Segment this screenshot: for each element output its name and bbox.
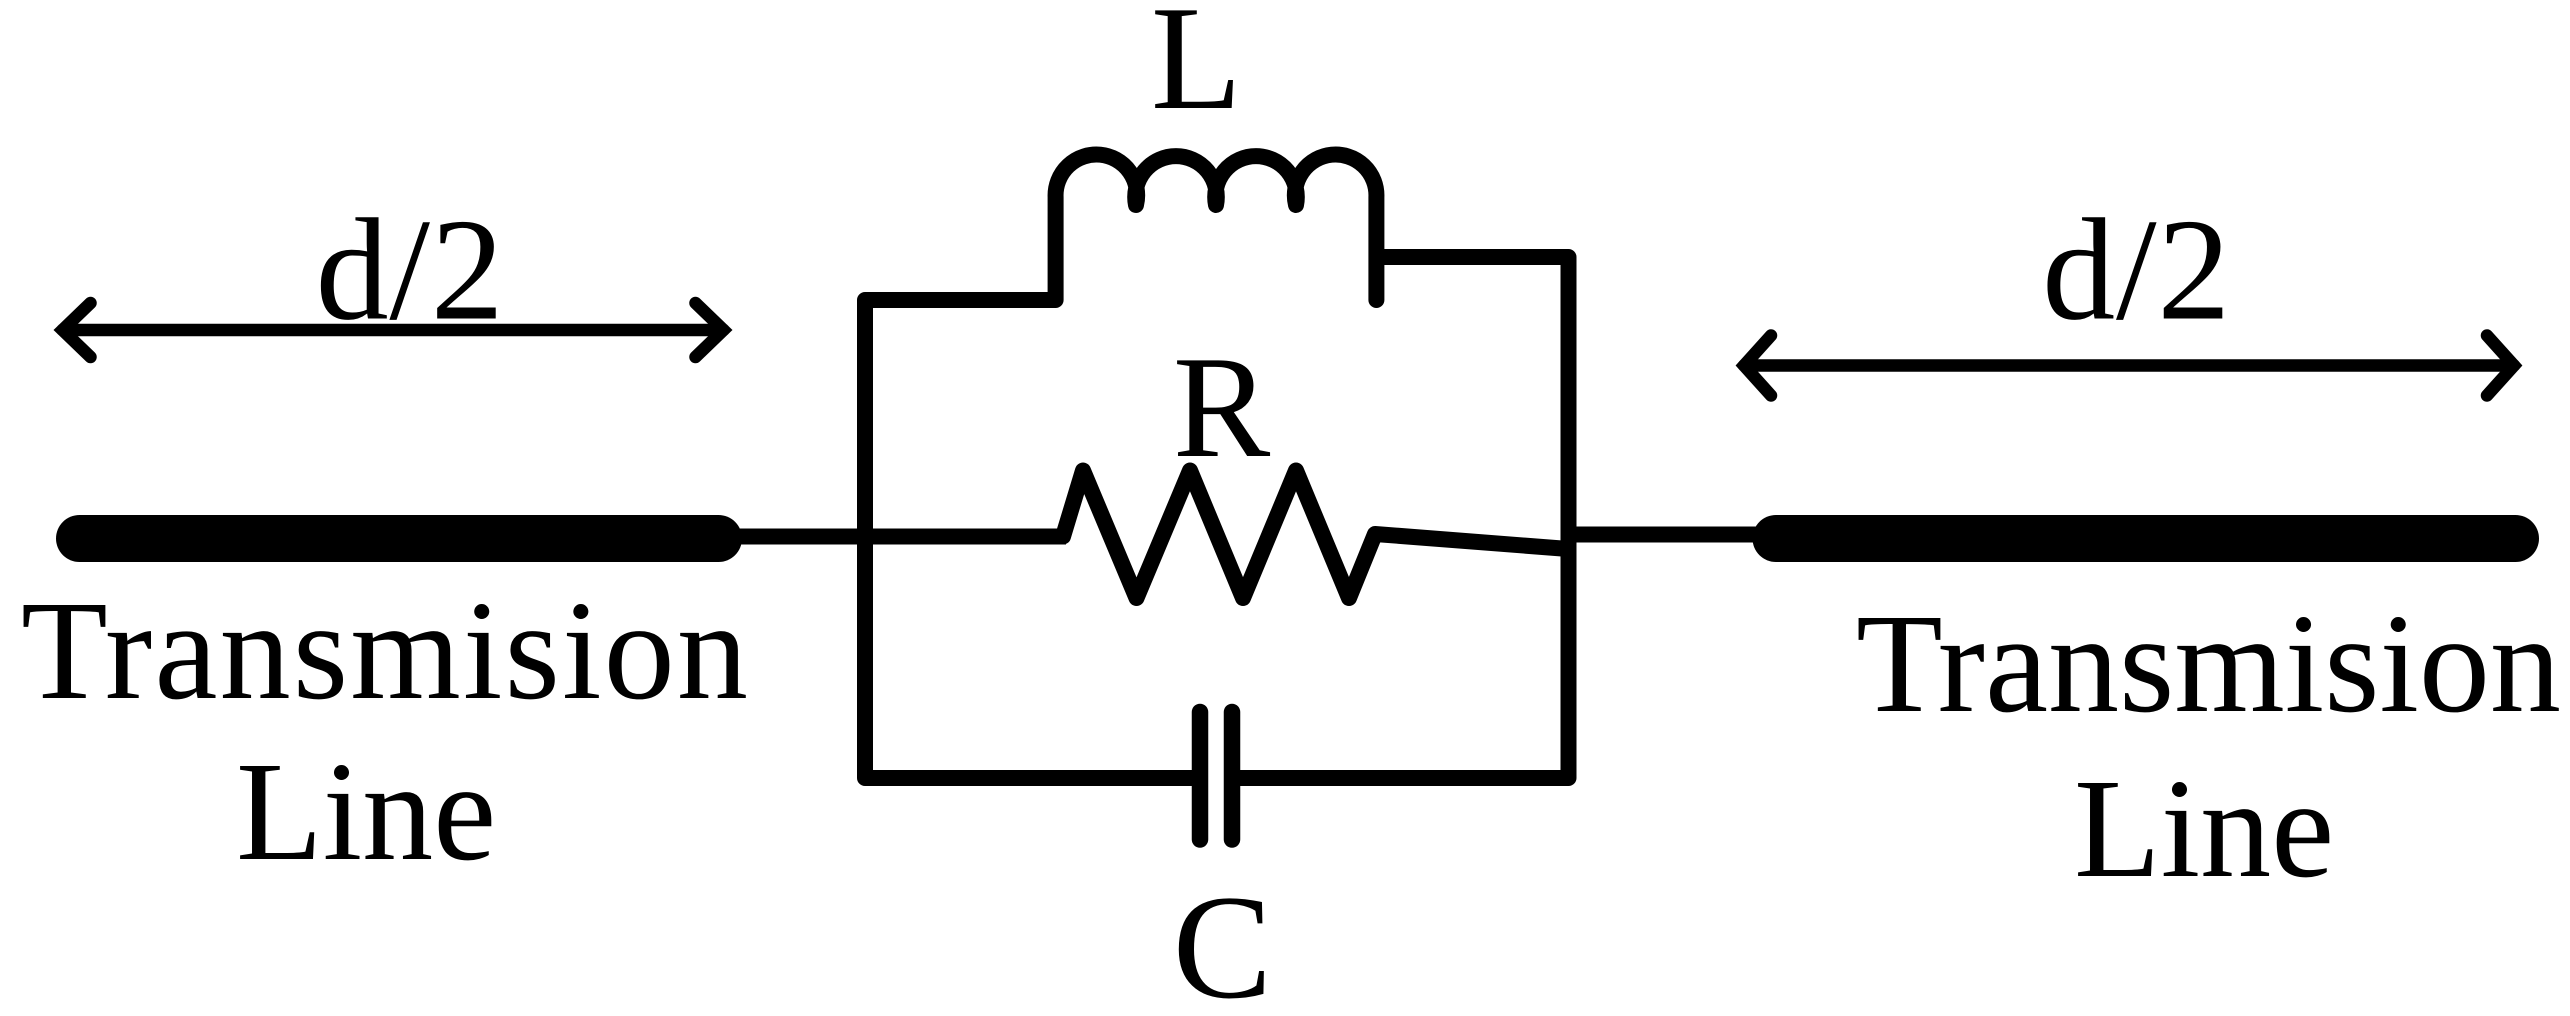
svg-text:R: R [1173,326,1271,488]
svg-text:L: L [1151,0,1242,141]
inductor L [1056,155,1377,300]
svg-text:Transmision: Transmision [1856,584,2561,742]
svg-text:Line: Line [2074,749,2334,907]
left transmission line conductor [80,515,719,562]
svg-text:Transmision: Transmision [21,571,750,729]
svg-text:d/2: d/2 [316,189,505,351]
capacitor C right plate [1224,712,1241,840]
wire: box to right transmission line [1569,527,1787,543]
capacitor C left plate [1192,712,1209,840]
wire: right branch of parallel box (bottom-right horizontal, right vertical, top-right horizontal) [1232,257,1569,778]
wire: left branch of parallel box (top-left horizontal, left vertical, bottom-left horizontal) [865,300,1200,778]
svg-text:C: C [1173,865,1272,1016]
svg-text:Line: Line [236,732,496,890]
wire: left transmission line to resistor network [718,529,1066,545]
svg-text:d/2: d/2 [2042,189,2231,351]
dimension arrow d/2 over left transmission line [63,303,724,357]
resistor R (zigzag) [1063,471,1569,599]
right transmission line conductor [1776,515,2516,562]
dimension arrow d/2 over right transmission line [1744,336,2514,396]
